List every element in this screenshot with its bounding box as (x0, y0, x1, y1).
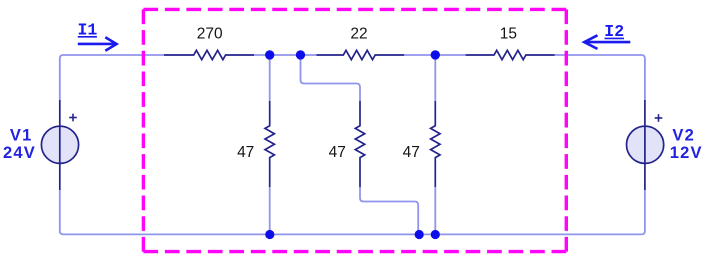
svg-text:24V: 24V (3, 144, 36, 162)
svg-text:270: 270 (197, 26, 223, 43)
svg-text:47: 47 (237, 144, 254, 161)
svg-text:V2: V2 (672, 126, 695, 144)
svg-text:12V: 12V (670, 144, 703, 162)
svg-text:47: 47 (329, 144, 346, 161)
svg-text:22: 22 (350, 26, 367, 43)
svg-text:15: 15 (500, 26, 517, 43)
svg-text:47: 47 (403, 144, 420, 161)
svg-text:V1: V1 (10, 126, 33, 144)
